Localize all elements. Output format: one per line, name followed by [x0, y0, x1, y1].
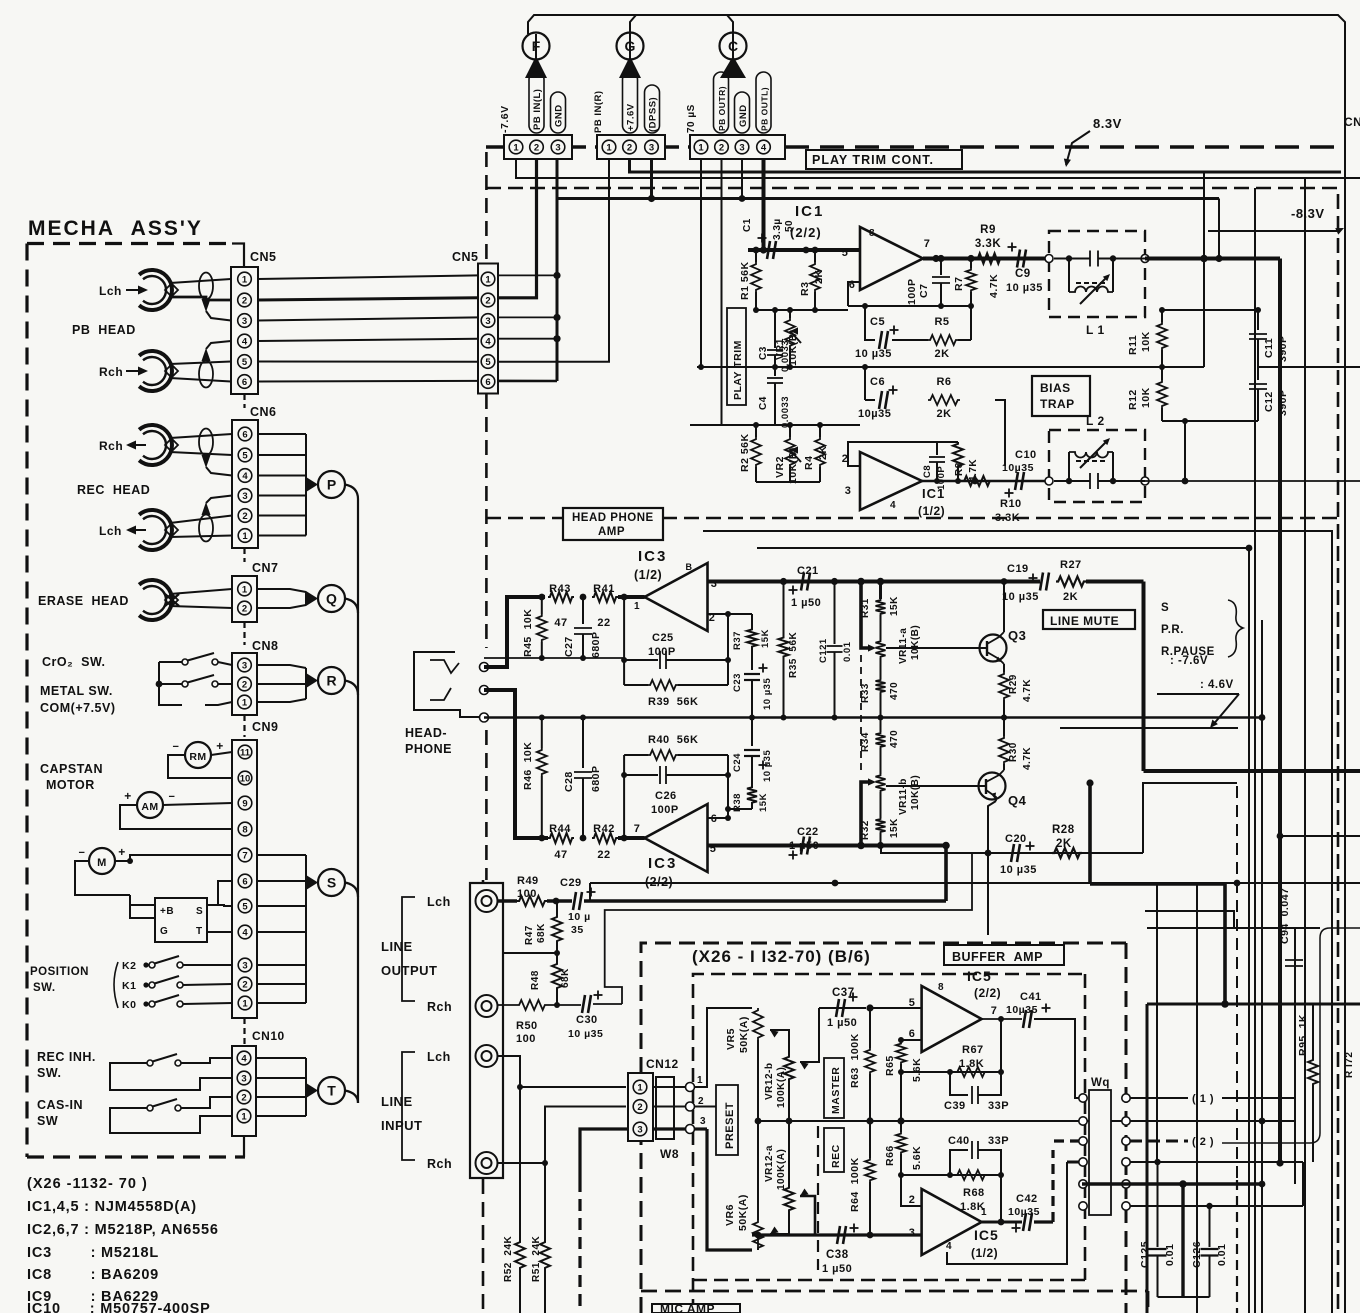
pin CN9-5 [238, 899, 252, 913]
wire COM to pin1 [205, 702, 232, 705]
mecha assy dashed border [27, 242, 232, 245]
svg-text:1: 1 [242, 275, 248, 286]
svg-text:C38: C38 [826, 1249, 849, 1261]
capacitor C126 0.01 [1209, 1206, 1211, 1247]
resistor R4 2K [819, 425, 821, 437]
connector CN10 box [232, 1046, 256, 1136]
wire CN12 pin3 to board thick [653, 1127, 686, 1130]
switch K0 [149, 1001, 155, 1007]
wire preset C37 rail [819, 1007, 866, 1009]
svg-text:0.01: 0.01 [1216, 1244, 1228, 1266]
pin CN5-3 left [238, 314, 252, 328]
trimmer VR5 50K(A) [753, 1008, 763, 1040]
label MASTER boxed [824, 1058, 844, 1118]
capacitor C121 0.01 [834, 582, 836, 645]
svg-text:P: P [327, 477, 336, 493]
svg-text:5.6K: 5.6K [911, 1146, 923, 1170]
svg-text:0.01: 0.01 [842, 641, 853, 662]
svg-text:68K: 68K [536, 923, 547, 943]
svg-text:3: 3 [637, 1125, 642, 1136]
svg-text:+7.6V: +7.6V [626, 103, 637, 131]
wire PB Lch to CN5 pins 1-2 [170, 279, 231, 283]
svg-text:10 µ35: 10 µ35 [568, 1028, 603, 1040]
svg-text:VR12-b: VR12-b [764, 1063, 775, 1100]
svg-text:PB HEAD: PB HEAD [72, 323, 136, 337]
wire IC3-2 pin5 line thick [708, 844, 947, 848]
bracket line input [402, 1052, 415, 1160]
svg-text:2: 2 [242, 680, 247, 691]
arrow into T [306, 1083, 318, 1098]
svg-text:C: C [728, 38, 738, 54]
wire CN10 fan to T [256, 1057, 306, 1059]
wire C stem [727, 15, 733, 60]
wire (2) dashed stub to Wq [1054, 1139, 1083, 1142]
capacitor C125 0.01 [1157, 1162, 1159, 1247]
wire C-4 PB OUTL thick drop [762, 159, 766, 250]
resistor R64 100K [869, 1121, 871, 1158]
wire (2) curve up right [1222, 928, 1360, 1143]
svg-text:R40 56K: R40 56K [648, 734, 698, 746]
svg-text:1.8K: 1.8K [959, 1058, 984, 1070]
svg-text:PB IN(R): PB IN(R) [593, 90, 604, 133]
svg-text:100P: 100P [648, 646, 676, 658]
svg-text:15K: 15K [758, 793, 769, 812]
svg-text:R10: R10 [1000, 498, 1022, 510]
resistor R51 24K [544, 1163, 546, 1240]
wire CAS-IN to pin2 pin1 [181, 1097, 232, 1108]
svg-text:R49: R49 [517, 875, 539, 887]
resistor R7 4.7K [970, 259, 972, 269]
wire x1237 down [1236, 786, 1238, 1180]
svg-text:REC: REC [830, 1144, 842, 1168]
capacitor C24 10u35 [751, 718, 753, 747]
svg-text:MASTER: MASTER [830, 1067, 842, 1114]
pin CN7-1 [238, 582, 252, 596]
wires CN8 fan to R [257, 665, 306, 668]
svg-text:C39: C39 [944, 1100, 966, 1112]
svg-text:G: G [160, 926, 168, 937]
pin CN9-4 [238, 925, 252, 939]
pin CN6-6 [238, 427, 252, 441]
svg-text:1 µ50: 1 µ50 [822, 1263, 852, 1275]
svg-text:100P: 100P [906, 278, 918, 305]
svg-text:Q4: Q4 [1008, 793, 1027, 808]
pin F-3 [551, 140, 565, 154]
wire VR6 bottom [757, 1235, 759, 1250]
wire x1295 vertical [1294, 928, 1296, 1184]
svg-text:R44: R44 [549, 823, 571, 835]
svg-text:C6: C6 [870, 376, 885, 388]
wire thick y884 [1090, 882, 1225, 886]
svg-text:B: B [686, 562, 693, 572]
wire loop left to pin2 [901, 1175, 922, 1206]
svg-text:5: 5 [842, 247, 849, 259]
wire jack tip to upper amp thick [484, 597, 545, 667]
svg-text:4: 4 [241, 1054, 247, 1065]
resistor R11 10K [1161, 310, 1163, 322]
wire B box to pin5 pin4 [207, 905, 232, 906]
svg-text:8: 8 [242, 825, 247, 836]
svg-text:IC8 : BA6209: IC8 : BA6209 [27, 1267, 159, 1283]
svg-text:ERASE HEAD: ERASE HEAD [38, 594, 129, 608]
wire vertical bundle right 1204 [1203, 172, 1205, 367]
svg-text:HEAD PHONE: HEAD PHONE [572, 512, 654, 524]
wire Wq y1184 thick [1082, 1182, 1262, 1186]
svg-text:C19: C19 [1007, 563, 1029, 575]
svg-text:R9: R9 [980, 224, 996, 236]
svg-text:S: S [196, 906, 203, 917]
wire CN12 pin1 to board [653, 1086, 686, 1088]
resistor R9 3.3K [976, 254, 1002, 264]
wire CN5 dashed link [243, 394, 245, 408]
svg-text:CN10: CN10 [252, 1029, 285, 1043]
svg-text:1: 1 [242, 585, 248, 596]
svg-text:5: 5 [485, 357, 491, 368]
junction G-3 on GND rail [650, 159, 653, 199]
svg-text:−: − [79, 847, 86, 859]
board pins 1 2 3 [686, 1083, 695, 1092]
wire pin6 to B box [218, 881, 232, 905]
svg-text:( 1 ): ( 1 ) [1192, 1093, 1214, 1105]
wire K switches to CN9 [183, 964, 232, 966]
capacitor C1 3.3u50 [767, 241, 776, 259]
capacitor C4 0.0033 [774, 367, 776, 376]
svg-text:R51 24K: R51 24K [531, 1235, 542, 1282]
wire mute line y853 [881, 846, 1143, 854]
arrow into Q [306, 591, 318, 606]
wire stage2 input rail [690, 424, 860, 426]
wire loop to output [1000, 1019, 1002, 1072]
svg-text:50K(A): 50K(A) [738, 1016, 750, 1053]
pin CN6-5 [238, 448, 252, 462]
wire stage2 bottom rail [756, 481, 790, 483]
svg-text:AMP: AMP [598, 526, 625, 538]
cable shield ellipse PB Lch [199, 273, 213, 300]
wire thick branch down x861 [857, 578, 865, 586]
svg-text:TRAP: TRAP [1040, 397, 1075, 411]
svg-text:R27: R27 [1060, 559, 1082, 571]
jack Lch in [476, 1045, 498, 1067]
wire shield PB Lch to pin3 [202, 299, 211, 312]
wire rch tap y910 [605, 853, 972, 1004]
svg-text:C3: C3 [758, 346, 769, 360]
wire M minus loop [75, 861, 130, 895]
svg-text:LINE MUTE: LINE MUTE [1050, 614, 1119, 628]
svg-text:0.01: 0.01 [1164, 1244, 1176, 1266]
wire S to trunk [345, 883, 358, 898]
link W8 [656, 1077, 674, 1139]
svg-text:R28: R28 [1052, 824, 1075, 836]
svg-text:C9: C9 [1015, 268, 1031, 280]
svg-text:7: 7 [991, 1005, 998, 1017]
svg-text:PRESET: PRESET [724, 1102, 736, 1149]
svg-text:R46 10K: R46 10K [522, 742, 534, 790]
svg-text:: 4.6V: : 4.6V [1200, 679, 1234, 691]
svg-text:10 µ35: 10 µ35 [1002, 591, 1039, 603]
svg-text:4: 4 [890, 500, 896, 511]
connector strip F fan [525, 56, 547, 78]
wire Q3 collector up [1003, 582, 1005, 633]
switch METAL [182, 681, 188, 687]
wire VR12-b bottom to bus [788, 1081, 790, 1121]
wire GND rail from F-3 [557, 159, 1219, 199]
wires CN6 fan to P [258, 433, 306, 435]
svg-text:47: 47 [554, 617, 567, 629]
capacitor C27 680P [582, 597, 584, 624]
jack Rch in [476, 1152, 498, 1174]
wire vertical bundle right 1219 [1218, 199, 1220, 259]
wire Wq y1162 right [1130, 1161, 1303, 1163]
svg-text:: -7.6V: : -7.6V [1170, 655, 1208, 667]
wire R11 C11 top rail [1162, 309, 1258, 311]
svg-text:VR11-a: VR11-a [898, 628, 909, 664]
resistor R65 5.6K [900, 1040, 902, 1042]
svg-text:+: + [118, 845, 126, 859]
svg-text:GND: GND [738, 104, 749, 127]
wire Q4 emitter down [988, 801, 996, 935]
wire shield dashed down [578, 1180, 581, 1313]
pin C-2 [715, 140, 729, 154]
svg-text:5: 5 [909, 997, 916, 1009]
svg-text:Rch: Rch [427, 1000, 452, 1014]
pin F-2 [530, 140, 544, 154]
svg-text:(2/2): (2/2) [790, 225, 822, 240]
resistor R68 1.8K [955, 1170, 987, 1180]
capacitor C40 33P [950, 1150, 968, 1175]
wire L2 output right [1145, 480, 1360, 482]
trimmer VR2 10K(B) [789, 425, 791, 437]
resistor R48 68K [556, 953, 558, 962]
feedback loop IC3-2 left vertical [623, 755, 625, 838]
wire IC5-1 pin3 thick [752, 1233, 922, 1236]
wire horizontal 548 long [757, 547, 1249, 549]
node Q [318, 585, 345, 612]
resistor R35 56K [783, 582, 785, 637]
svg-text:S: S [1161, 602, 1169, 614]
svg-text:R45 10K: R45 10K [522, 609, 534, 657]
wire pin6 node [708, 817, 729, 819]
svg-text:3: 3 [739, 143, 744, 154]
svg-text:VR6: VR6 [724, 1204, 736, 1226]
svg-text:AM: AM [141, 801, 158, 813]
svg-text:R41: R41 [593, 583, 615, 595]
svg-text:RM: RM [189, 751, 206, 763]
svg-text:R47: R47 [524, 925, 535, 945]
svg-text:4: 4 [242, 337, 248, 348]
svg-text:METAL SW.: METAL SW. [40, 684, 113, 698]
wire shield PB Rch to pin4 [202, 348, 211, 361]
head PB Rch [139, 351, 178, 391]
svg-text:390P: 390P [1277, 389, 1289, 416]
pin F-1 [509, 140, 523, 154]
svg-text:Rch: Rch [99, 365, 123, 379]
wire shield REC Lch to pin3 [202, 502, 211, 515]
svg-text:K1: K1 [122, 980, 136, 992]
svg-text:R52 24K: R52 24K [503, 1235, 514, 1282]
svg-text:CN6: CN6 [250, 405, 277, 419]
svg-text:IC2,6,7 : M5218P, AN6556: IC2,6,7 : M5218P, AN6556 [27, 1222, 219, 1238]
switch CAS-IN [147, 1105, 153, 1111]
inductor L2 variable coil [1068, 452, 1070, 481]
wire thick bend down x1143 [1142, 582, 1146, 772]
switch K1 [149, 982, 155, 988]
pin G-2 [623, 140, 637, 154]
wire +7.6V rail from G-2 [630, 159, 1342, 172]
wire rail y953 [503, 952, 557, 954]
resistor R52 24K [519, 1087, 521, 1240]
svg-text:Lch: Lch [427, 1050, 451, 1064]
svg-text:8: 8 [938, 982, 944, 993]
svg-text:1: 1 [637, 1083, 643, 1094]
svg-text:R63 100K: R63 100K [849, 1033, 861, 1088]
resistor R27 2K [1056, 577, 1086, 587]
resistor R42 22 [592, 833, 618, 843]
svg-text:35: 35 [571, 924, 584, 936]
pin CN9-7 [238, 848, 252, 862]
wire CN5r pin1 to GND vertical [498, 274, 557, 276]
svg-text:3: 3 [242, 961, 247, 972]
label BUFFER AMP [944, 945, 1064, 965]
svg-text:3.3µ: 3.3µ [772, 218, 783, 240]
svg-text:7: 7 [924, 238, 931, 250]
pin CN7-2 [238, 601, 252, 615]
head PB Lch [139, 270, 178, 310]
head ERASE [139, 580, 178, 620]
svg-text:1: 1 [634, 601, 640, 612]
svg-text:PB IN(L): PB IN(L) [532, 89, 543, 130]
svg-text:COM(+7.5V): COM(+7.5V) [40, 701, 116, 715]
label (1) net [1130, 1097, 1188, 1099]
wire METAL sw to pin2 [218, 683, 232, 685]
svg-text:R11: R11 [1127, 335, 1139, 355]
transistor Q4 [979, 773, 1006, 800]
wire cap bottom rail [1158, 1296, 1210, 1298]
svg-text:C125: C125 [1139, 1241, 1151, 1268]
svg-text:3: 3 [242, 491, 247, 502]
svg-text:4.7K: 4.7K [1022, 679, 1033, 702]
svg-text:10K: 10K [1140, 387, 1152, 408]
switch REC INH [147, 1060, 153, 1066]
wire Q to trunk [345, 599, 358, 614]
svg-text:C23: C23 [732, 673, 743, 692]
wire vertical 1255 [1254, 188, 1256, 1313]
wire IC1 input node A [748, 248, 764, 252]
pin CN10-1 [237, 1109, 251, 1123]
wire R28 return loop [1143, 783, 1237, 853]
brace [1228, 600, 1243, 657]
connector CN5 left box [231, 267, 258, 394]
svg-text:3: 3 [242, 661, 247, 672]
wire CN5r pin6 [498, 380, 557, 383]
svg-text:Q3: Q3 [1008, 628, 1026, 643]
svg-text:33P: 33P [988, 1100, 1009, 1112]
svg-text:C41: C41 [1020, 991, 1042, 1003]
connector CN7 box [232, 576, 257, 622]
svg-text:R35 56K: R35 56K [788, 631, 799, 678]
wire CrO2 sw to pin3 [218, 662, 232, 665]
svg-text:R4: R4 [803, 456, 815, 470]
svg-text:R64 100K: R64 100K [849, 1157, 861, 1212]
svg-text:VR12-a: VR12-a [764, 1145, 775, 1182]
svg-text:2: 2 [627, 143, 632, 154]
resistor R50 100 [517, 1000, 547, 1010]
resistor R12 10K [1161, 367, 1163, 380]
connector C box [690, 135, 785, 159]
label PB OUTR stadium [714, 72, 729, 133]
capacitor C5 10u35 [879, 331, 888, 349]
bracket line output [402, 897, 415, 1001]
svg-text:C121: C121 [818, 638, 829, 663]
svg-text:CN: CN [1344, 115, 1360, 129]
svg-text:2K: 2K [1063, 591, 1078, 603]
arrow 4.6V pointer [1157, 693, 1239, 695]
capacitor C3 0.0033 [774, 310, 776, 348]
svg-text:VR11-b: VR11-b [898, 778, 909, 815]
svg-text:R34: R34 [860, 732, 871, 752]
svg-text:C11: C11 [1263, 338, 1275, 358]
wire C19 R27 thick [1086, 580, 1144, 584]
capacitor C10 10u35 [1015, 472, 1024, 490]
svg-text:IC3: IC3 [638, 548, 667, 565]
svg-text:VR5: VR5 [725, 1028, 737, 1050]
wire vertical 1305 [1304, 178, 1306, 1313]
connector CN9 box [232, 740, 257, 1018]
svg-text:15K: 15K [889, 818, 900, 838]
capacitor C38 1u50 [837, 1226, 846, 1244]
svg-text:3: 3 [909, 1227, 916, 1239]
pin CN9-6 [238, 874, 252, 888]
head REC Rch [139, 425, 178, 465]
svg-text:390P: 390P [1277, 335, 1289, 362]
wire 4.6 line y728 [1060, 727, 1238, 729]
svg-text:W8: W8 [660, 1147, 679, 1161]
wire pin4 loop [947, 1162, 1067, 1264]
wire C-3 GND drop [741, 159, 743, 199]
pin CN9-11 [238, 745, 252, 759]
svg-text:10 µ: 10 µ [568, 911, 591, 923]
svg-text:C40: C40 [948, 1135, 970, 1147]
wire IC3-1 pin3 line thick [708, 580, 1041, 584]
svg-text:100K(A): 100K(A) [776, 1149, 787, 1190]
svg-text:7: 7 [634, 823, 641, 835]
resistor R45 10K [541, 597, 543, 614]
resistor R44 47 [548, 833, 574, 843]
resistor R1 56K [755, 250, 757, 262]
wire CN5r pin2 to F2 [498, 159, 537, 298]
svg-text:2: 2 [637, 1102, 642, 1113]
svg-text:Wq: Wq [1091, 1077, 1110, 1089]
jack Rch out [476, 995, 498, 1017]
capacitor C28 680P [582, 718, 584, 769]
pin CN6-3 [238, 489, 252, 503]
svg-text:470: 470 [889, 682, 900, 700]
wire P to trunk [345, 485, 358, 614]
svg-text:PB OUTL): PB OUTL) [760, 87, 770, 131]
pin CN10-2 [237, 1090, 251, 1104]
svg-text:CrO₂ SW.: CrO₂ SW. [42, 655, 106, 669]
svg-text:P.R.: P.R. [1161, 624, 1184, 636]
svg-text:2: 2 [241, 1093, 246, 1104]
svg-text:2: 2 [242, 511, 247, 522]
capacitor C41 10u35 [1023, 1010, 1032, 1028]
wire C29 thick from tap [584, 899, 946, 903]
wire M to pin7 [115, 855, 232, 861]
capacitor C6 10u35 [879, 391, 888, 409]
wire pin2 node [708, 613, 729, 615]
svg-text:2: 2 [698, 1096, 704, 1107]
wire top -8.3V bus [528, 15, 1345, 1313]
svg-text:1: 1 [242, 698, 248, 709]
